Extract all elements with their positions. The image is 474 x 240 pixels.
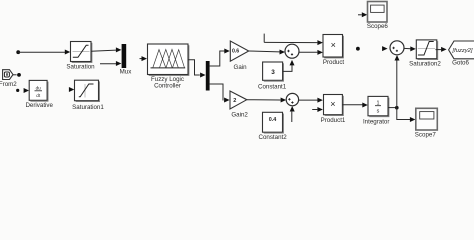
- svg-text:×: ×: [330, 99, 335, 109]
- svg-text:Integrator: Integrator: [363, 118, 389, 125]
- svg-text:Saturation1: Saturation1: [72, 104, 104, 111]
- svg-text:Derivative: Derivative: [25, 102, 53, 109]
- Sum2 circle: [390, 41, 404, 55]
- Demux block: [206, 61, 210, 91]
- wire: Sum3 output to Product1 input 1: [299, 99, 318, 101]
- svg-text:Constant2: Constant2: [258, 134, 287, 141]
- svg-text:×: ×: [331, 40, 336, 50]
- Constant1 block (3): [263, 62, 284, 81]
- wire: feedback up into Sum2: [396, 60, 398, 108]
- svg-text:Scope6: Scope6: [367, 23, 389, 30]
- svg-text:[fuzzy2]: [fuzzy2]: [452, 48, 473, 54]
- svg-text:Gain2: Gain2: [231, 112, 248, 119]
- node dot before Derivative: [16, 89, 19, 92]
- svg-text:Gain: Gain: [234, 64, 248, 71]
- svg-text:Constant1: Constant1: [258, 84, 287, 91]
- Gain block (0.6): [230, 41, 248, 61]
- wire: Gain output to Sum1, with branch up to Product input 1: [249, 50, 280, 53]
- Constant2 block (0.4): [263, 112, 284, 133]
- Integrator block: [368, 96, 389, 116]
- wire: Saturation to Mux top input: [91, 50, 116, 51]
- wire: Demux bottom output to Gain2: [210, 84, 224, 100]
- Product1 block: [324, 95, 344, 116]
- From2 tag block: [3, 70, 13, 80]
- Sum3 circle: [286, 93, 298, 105]
- wire: Integrator output with junction dot: [388, 107, 397, 109]
- node dot: From2 branch junction on top line: [16, 50, 20, 54]
- arrow into Fuzzy Logic Controller: [140, 58, 142, 60]
- wire: Sum1 output to Product input 2: [299, 51, 318, 53]
- wire: Demux top output to Gain: [210, 51, 225, 66]
- svg-text:3: 3: [271, 69, 275, 76]
- Sum1 circle: [285, 44, 299, 58]
- svg-text:s: s: [377, 109, 380, 115]
- wire: Gain2 output to Sum3: [247, 99, 281, 101]
- svg-text:Scope7: Scope7: [415, 132, 437, 139]
- Gain2 block (2): [230, 91, 247, 109]
- Goto6 tag block: [449, 41, 474, 59]
- Scope7 block: [416, 108, 438, 130]
- svg-text:Goto6: Goto6: [452, 59, 469, 66]
- Fuzzy Logic Controller block: [148, 44, 189, 75]
- wire: Constant2 up into Sum3: [291, 112, 293, 122]
- svg-text:Saturation2: Saturation2: [409, 60, 441, 67]
- svg-text:0.6: 0.6: [232, 48, 239, 54]
- Mux block: [122, 44, 127, 68]
- wire: Saturation1 path to Mux bottom input: [100, 63, 116, 65]
- svg-text:du: du: [36, 85, 42, 90]
- svg-text:Saturation: Saturation: [66, 63, 95, 70]
- svg-text:Product1: Product1: [321, 117, 346, 124]
- wire: junction down to Scope7: [397, 108, 411, 120]
- Saturation block: [71, 42, 92, 63]
- arrow into Sum2: [382, 46, 388, 51]
- svg-text:Mux: Mux: [120, 69, 133, 76]
- wire: Saturation2 to Goto6: [436, 49, 442, 51]
- wire: Constant1 up into Sum1: [283, 65, 292, 71]
- Saturation2 block: [416, 40, 437, 60]
- arrow into Derivative: [24, 88, 29, 93]
- wire: FLC output down to Demux: [188, 60, 200, 75]
- arrow into Saturation1: [69, 87, 74, 92]
- svg-text:2: 2: [233, 98, 236, 104]
- svg-text:From2: From2: [0, 81, 17, 88]
- Scope6 block: [368, 2, 388, 23]
- Derivative block: [29, 80, 48, 101]
- Product block: [323, 35, 343, 58]
- svg-text:0.4: 0.4: [269, 117, 277, 123]
- wire: junction to Saturation input: [18, 51, 66, 53]
- wire: Product1 to Integrator: [342, 104, 362, 106]
- svg-text:Controller: Controller: [154, 83, 181, 90]
- node dot after Product: [356, 47, 360, 51]
- Saturation1 block: [75, 80, 100, 101]
- arrow into Scope6: [358, 14, 362, 16]
- From2 output stub and node dot: [13, 74, 17, 76]
- svg-text:Product: Product: [323, 59, 345, 66]
- wire: Sum2 output to Saturation2: [404, 47, 411, 49]
- arrow stub into Product1 input 2: [312, 109, 317, 111]
